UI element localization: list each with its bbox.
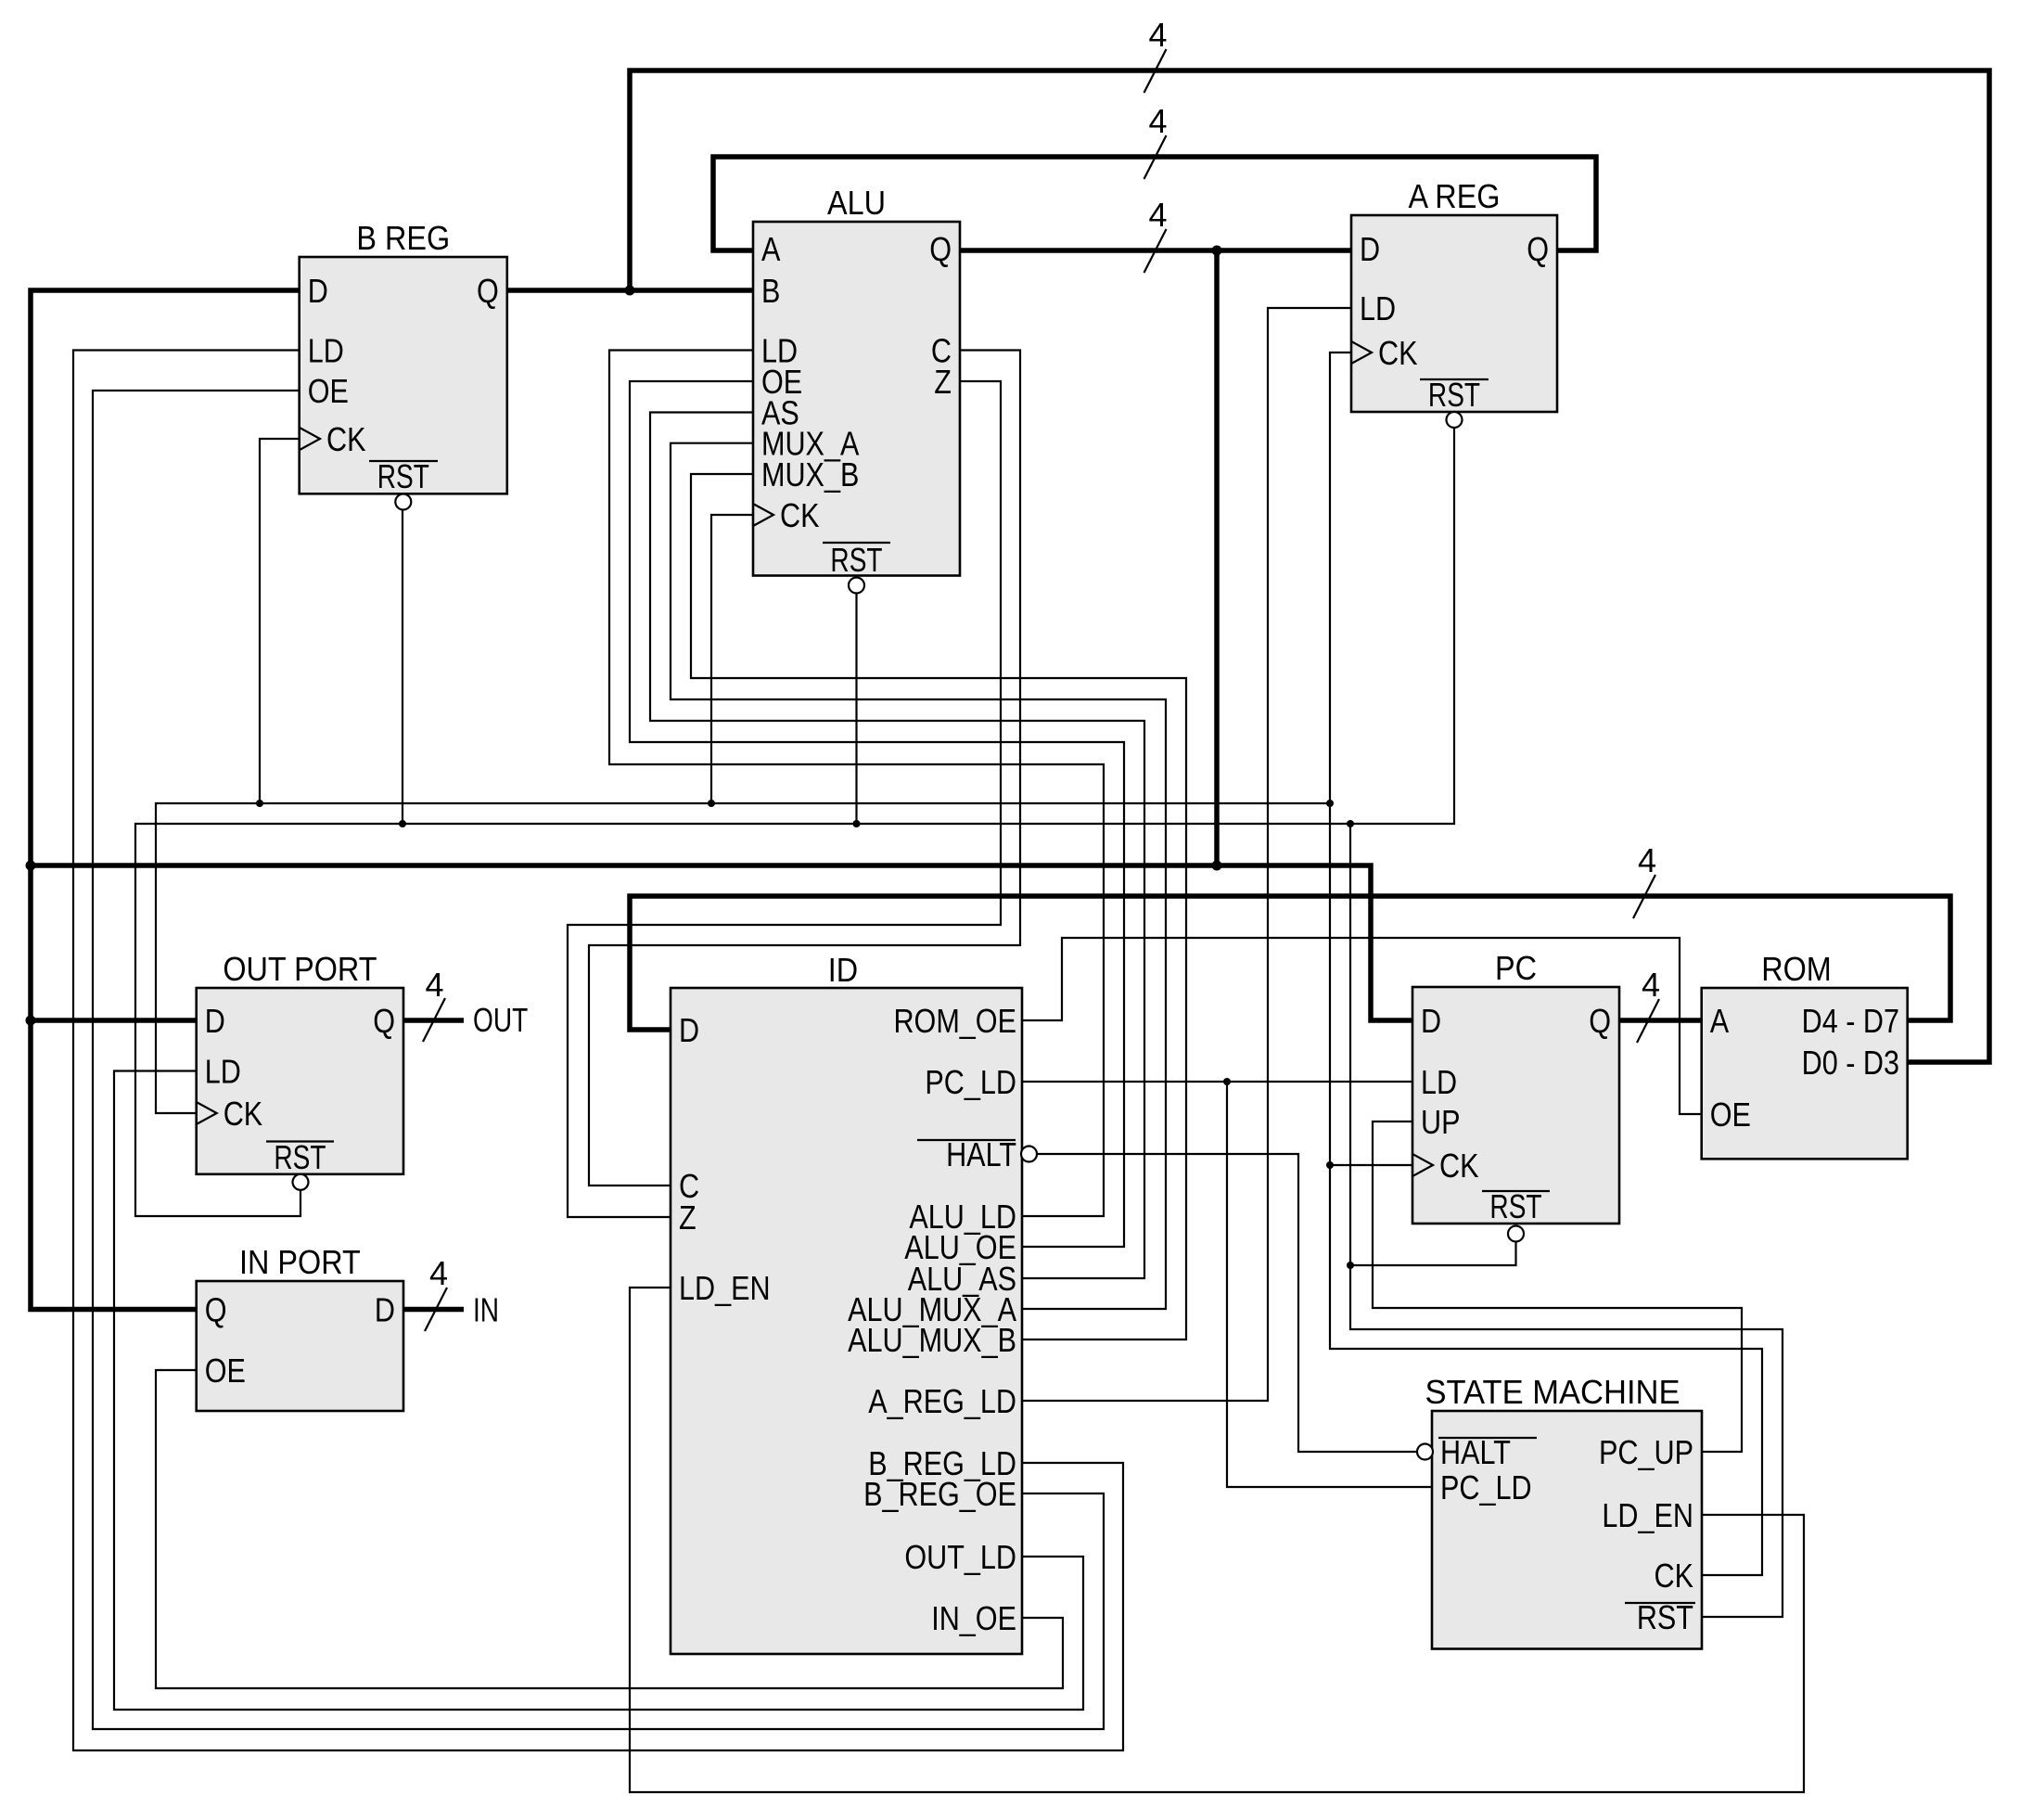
svg-text:Q: Q <box>477 274 499 311</box>
svg-text:A: A <box>761 232 781 269</box>
svg-text:D: D <box>205 1004 225 1041</box>
svg-text:A_REG_LD: A_REG_LD <box>868 1384 1016 1421</box>
svg-text:RST: RST <box>1428 377 1480 414</box>
svg-text:LD: LD <box>1421 1065 1457 1102</box>
svg-text:RST: RST <box>1489 1188 1541 1225</box>
svg-text:OUT_LD: OUT_LD <box>904 1540 1016 1577</box>
svg-text:4: 4 <box>425 966 443 1004</box>
svg-text:RST: RST <box>1637 1600 1693 1637</box>
svg-text:LD: LD <box>1360 291 1396 328</box>
svg-text:Q: Q <box>205 1292 227 1329</box>
svg-text:ROM_OE: ROM_OE <box>893 1004 1016 1041</box>
svg-text:IN PORT: IN PORT <box>239 1244 361 1281</box>
svg-text:CK: CK <box>1378 336 1417 373</box>
svg-text:D: D <box>308 274 328 311</box>
svg-text:OUT: OUT <box>473 1002 528 1039</box>
svg-text:PC_UP: PC_UP <box>1599 1435 1693 1472</box>
svg-text:4: 4 <box>1148 16 1167 54</box>
svg-text:HALT: HALT <box>1440 1435 1511 1472</box>
svg-text:Q: Q <box>929 232 952 269</box>
svg-text:CK: CK <box>326 422 365 459</box>
svg-text:ALU: ALU <box>827 185 886 222</box>
svg-text:LD: LD <box>205 1054 241 1091</box>
svg-text:OUT PORT: OUT PORT <box>223 951 377 988</box>
svg-text:ID: ID <box>828 952 858 989</box>
svg-text:D4 - D7: D4 - D7 <box>1802 1004 1899 1041</box>
svg-text:LD_EN: LD_EN <box>1602 1498 1693 1535</box>
svg-text:4: 4 <box>1642 966 1660 1004</box>
svg-text:IN_OE: IN_OE <box>931 1601 1016 1638</box>
svg-text:A REG: A REG <box>1408 178 1500 215</box>
svg-text:Z: Z <box>679 1200 696 1237</box>
svg-text:D: D <box>1421 1004 1441 1041</box>
svg-text:PC_LD: PC_LD <box>1440 1470 1532 1507</box>
svg-text:RST: RST <box>274 1139 326 1176</box>
svg-text:OE: OE <box>308 374 349 411</box>
svg-text:4: 4 <box>1148 102 1167 140</box>
svg-text:D: D <box>1360 232 1380 269</box>
svg-text:D0 - D3: D0 - D3 <box>1802 1045 1899 1083</box>
svg-text:LD_EN: LD_EN <box>679 1271 771 1308</box>
svg-text:ALU_MUX_B: ALU_MUX_B <box>848 1323 1016 1360</box>
svg-text:PC: PC <box>1495 950 1537 987</box>
svg-text:HALT: HALT <box>946 1137 1016 1174</box>
svg-text:PC_LD: PC_LD <box>925 1065 1016 1102</box>
svg-text:ROM: ROM <box>1761 951 1832 988</box>
svg-text:Q: Q <box>373 1004 395 1041</box>
svg-text:OE: OE <box>1710 1097 1751 1134</box>
svg-text:Q: Q <box>1589 1004 1611 1041</box>
svg-text:CK: CK <box>780 498 819 535</box>
svg-text:D: D <box>375 1292 395 1329</box>
svg-text:CK: CK <box>1439 1148 1478 1186</box>
svg-text:MUX_B: MUX_B <box>761 457 859 494</box>
svg-text:CK: CK <box>1655 1558 1693 1596</box>
svg-text:Q: Q <box>1527 232 1549 269</box>
svg-text:CK: CK <box>224 1096 262 1134</box>
svg-text:4: 4 <box>1148 196 1167 234</box>
svg-text:STATE MACHINE: STATE MACHINE <box>1425 1374 1680 1411</box>
svg-text:RST: RST <box>830 542 882 579</box>
svg-text:UP: UP <box>1421 1105 1460 1142</box>
svg-text:IN: IN <box>473 1291 499 1328</box>
svg-text:4: 4 <box>429 1254 448 1292</box>
svg-text:Z: Z <box>934 365 952 402</box>
svg-text:B REG: B REG <box>356 220 450 257</box>
svg-text:A: A <box>1710 1004 1730 1041</box>
svg-text:B: B <box>761 274 780 311</box>
svg-text:OE: OE <box>205 1353 246 1391</box>
svg-text:RST: RST <box>377 458 429 495</box>
svg-text:D: D <box>679 1013 699 1050</box>
svg-text:LD: LD <box>308 333 344 370</box>
svg-text:4: 4 <box>1638 841 1656 879</box>
svg-text:B_REG_OE: B_REG_OE <box>863 1477 1016 1514</box>
